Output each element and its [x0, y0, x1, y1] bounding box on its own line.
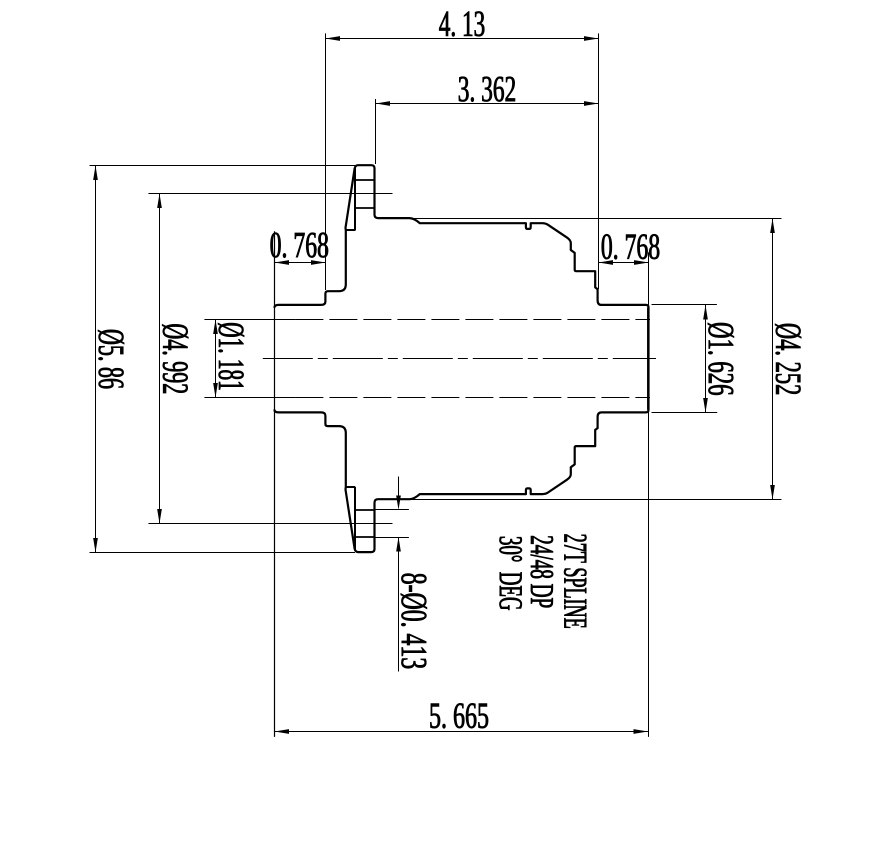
right hub face extension line upper: [648, 252, 650, 305]
hidden bore line bottom with solid extension segment: [204, 397, 650, 399]
dimension 8 holes diameter 0.413: [396, 477, 427, 672]
dimension 4.13: [326, 11, 599, 290]
flange inner edge bottom: [354, 487, 356, 550]
bolt hole upper line bottom flange with extension: [355, 509, 409, 512]
dimension diameter 1.181 bore: [213, 320, 244, 398]
part outline upper half: [274, 165, 648, 359]
dimension diameter 1.626 right hub: [652, 305, 734, 413]
note 30 degree pressure angle: [499, 537, 521, 610]
flange back face bottom: [346, 486, 355, 488]
right hub face extension line lower: [648, 412, 650, 737]
dimension diameter 5.86 flange: [90, 165, 356, 552]
note 27T SPLINE: [564, 535, 586, 628]
flange inner edge top: [354, 168, 356, 231]
centerline: [263, 358, 656, 360]
bolt hole upper line top flange: [355, 179, 375, 181]
part outline lower half: [274, 359, 648, 552]
dimension diameter 4.252 body: [410, 218, 802, 499]
left hub face and extension line: [274, 231, 276, 737]
note 24/48 DP: [531, 536, 553, 607]
hidden bore line top with solid extension segment: [204, 319, 650, 321]
bolt hole lower line bottom flange with extension: [355, 536, 409, 539]
flange back face top: [346, 229, 355, 231]
dimension diameter 4.992 bolt circle: [148, 194, 392, 524]
dimension 0.768 left: [271, 233, 329, 265]
right hub face thick segment: [647, 308, 649, 410]
dimension 3.362: [376, 77, 599, 164]
bolt hole lower line top flange: [355, 207, 375, 209]
dimension 0.768 right: [599, 234, 660, 265]
dimension 5.665 overall length: [274, 703, 648, 734]
